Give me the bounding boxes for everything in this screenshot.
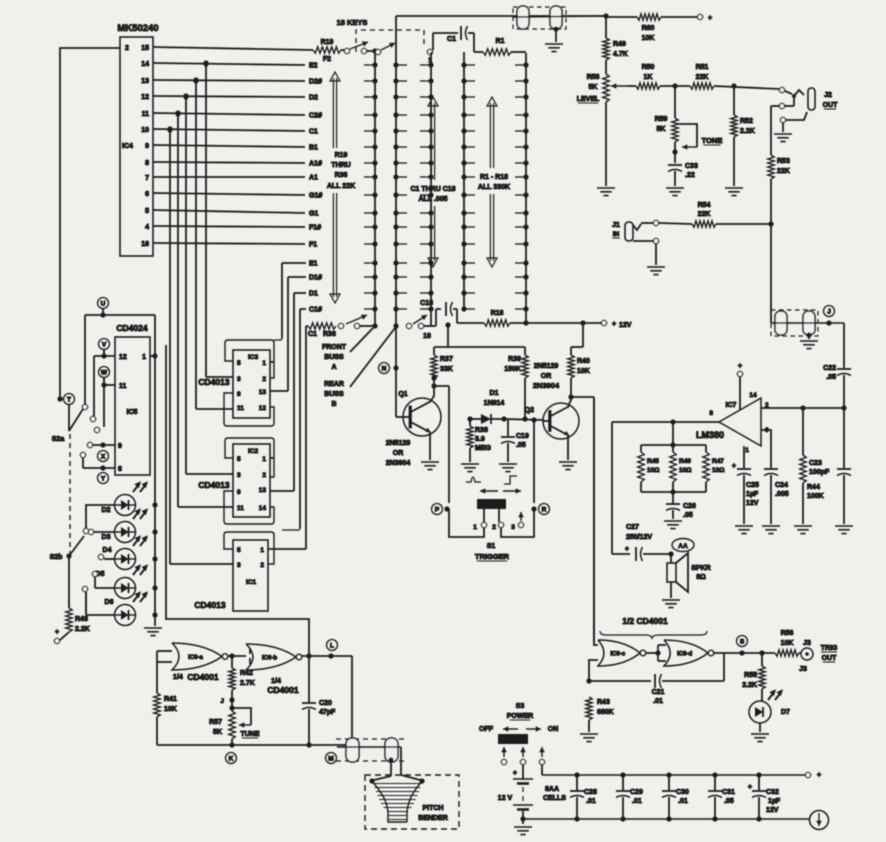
svg-text:10Ω: 10Ω [679,467,691,474]
svg-text:S2b: S2b [50,554,63,561]
svg-text:D2: D2 [309,95,318,102]
svg-text:1: 1 [260,547,264,554]
svg-text:1µF: 1µF [768,798,781,805]
svg-text:12 V: 12 V [498,795,513,802]
svg-text:10Ω: 10Ω [647,467,659,474]
svg-text:33K: 33K [440,366,453,373]
svg-text:R43: R43 [597,699,610,706]
svg-text:C33: C33 [685,163,698,170]
svg-text:14: 14 [141,61,149,68]
svg-text:R55: R55 [744,672,757,679]
svg-text:4: 4 [145,224,149,231]
svg-text:D6: D6 [105,599,114,606]
svg-text:AA: AA [678,543,688,550]
svg-text:TRIG: TRIG [821,645,838,652]
svg-text:D7: D7 [781,709,790,716]
svg-text:C27: C27 [626,524,639,531]
svg-text:ALL 22K: ALL 22K [327,183,355,190]
svg-text:TONE: TONE [702,136,723,145]
svg-text:13: 13 [259,487,267,494]
svg-text:V: V [102,341,107,348]
svg-text:R47: R47 [712,458,724,465]
svg-text:B: B [331,401,336,408]
svg-text:R51: R51 [696,64,709,71]
svg-text:D2#: D2# [309,79,322,86]
svg-text:S3: S3 [516,703,525,710]
svg-text:D3: D3 [102,534,111,541]
svg-text:+: + [612,321,616,328]
svg-text:C25: C25 [746,482,759,489]
svg-text:680K: 680K [597,709,614,716]
svg-text:18: 18 [423,333,431,340]
svg-text:1/4: 1/4 [173,674,183,681]
svg-text:1: 1 [142,354,146,361]
svg-text:LEVEL: LEVEL [577,96,600,103]
svg-text:5: 5 [237,547,241,554]
svg-text:8AA: 8AA [545,786,559,793]
svg-text:R40: R40 [577,358,590,365]
svg-text:22K: 22K [696,74,709,81]
svg-text:2N3904: 2N3904 [386,460,411,467]
svg-text:1µF: 1µF [746,491,759,498]
svg-text:8: 8 [145,160,149,167]
svg-text:R57: R57 [209,719,222,726]
svg-text:L: L [330,642,334,649]
svg-text:250/12V: 250/12V [626,534,652,541]
svg-text:100K: 100K [807,493,824,500]
svg-text:IC7: IC7 [726,402,737,409]
svg-text:CD4024: CD4024 [116,323,147,333]
svg-text:.05: .05 [516,442,526,449]
svg-text:R52: R52 [740,118,753,125]
svg-text:11: 11 [237,505,244,512]
svg-text:W: W [101,369,108,376]
svg-text:REAR: REAR [324,381,344,388]
svg-text:A: A [331,364,336,371]
svg-text:CD4013: CD4013 [194,600,225,610]
svg-text:+: + [817,772,821,779]
svg-text:2.2K: 2.2K [740,128,755,135]
svg-text:THRU: THRU [331,162,350,169]
svg-text:R49: R49 [613,41,626,48]
svg-text:2: 2 [262,376,266,383]
svg-text:R45: R45 [647,458,659,465]
svg-text:C1#: C1# [309,307,322,314]
svg-text:C21: C21 [652,689,665,696]
svg-text:1: 1 [262,456,266,463]
svg-text:C2#: C2# [309,113,322,120]
svg-text:IC6-d: IC6-d [677,651,692,657]
svg-text:TUNE: TUNE [240,731,259,738]
svg-text:3.9: 3.9 [475,436,485,443]
svg-text:R60: R60 [642,25,655,32]
svg-text:S2a: S2a [52,436,65,443]
svg-text:IC4: IC4 [122,143,133,150]
svg-text:A1: A1 [309,175,318,182]
svg-text:C30: C30 [676,789,689,796]
svg-text:CD4001: CD4001 [187,672,218,682]
svg-text:J1: J1 [612,222,620,229]
svg-text:.01: .01 [678,798,688,805]
svg-text:R56: R56 [781,630,794,637]
svg-text:Y: Y [101,475,106,482]
svg-text:+: + [55,629,59,636]
svg-text:7: 7 [145,175,149,182]
svg-text:+: + [732,463,736,470]
svg-text:B1: B1 [309,145,318,152]
svg-text:IC5: IC5 [127,409,138,416]
svg-text:R37: R37 [440,356,453,363]
svg-text:OUT: OUT [823,102,839,109]
svg-text:4.7K: 4.7K [613,51,628,58]
svg-text:C1 THRU C18: C1 THRU C18 [410,186,455,193]
svg-text:12: 12 [141,94,149,101]
svg-text:12V: 12V [766,807,779,814]
svg-text:Q1: Q1 [398,391,407,398]
svg-text:R44: R44 [807,484,820,491]
svg-text:C23: C23 [809,460,822,467]
svg-text:R19: R19 [335,152,348,159]
svg-text:F1: F1 [309,242,317,249]
svg-text:D1#: D1# [309,275,322,282]
svg-text:ON: ON [548,726,559,733]
svg-text:.01: .01 [632,798,642,805]
svg-text:.05: .05 [724,798,734,805]
svg-text:R48: R48 [75,616,88,623]
svg-text:C24: C24 [775,482,788,489]
svg-text:2.2K: 2.2K [75,626,90,633]
svg-text:C18: C18 [420,300,433,307]
svg-text:12V: 12V [746,500,759,507]
svg-text:R41: R41 [164,696,177,703]
svg-text:OR: OR [541,373,552,380]
svg-text:C31: C31 [722,789,735,796]
svg-text:+: + [738,363,742,370]
svg-text:15: 15 [141,45,149,52]
svg-text:1K: 1K [644,74,653,81]
svg-text:5: 5 [145,208,149,215]
svg-text:2.7K: 2.7K [240,680,255,687]
svg-text:J: J [827,308,831,315]
svg-text:J2: J2 [824,92,832,99]
svg-text:F2: F2 [323,56,331,63]
svg-text:.01: .01 [586,798,596,805]
svg-text:OFF: OFF [479,726,494,733]
svg-text:OR: OR [393,450,404,457]
svg-text:M: M [328,755,333,762]
svg-text:5: 5 [237,456,241,463]
svg-text:10K: 10K [164,706,177,713]
svg-text:3: 3 [237,472,241,479]
svg-text:22K: 22K [698,211,711,218]
svg-text:2: 2 [125,45,129,52]
svg-text:P: P [435,506,440,513]
svg-text:LM380: LM380 [696,430,724,440]
svg-text:D1: D1 [490,390,499,397]
svg-text:F1#: F1# [309,225,321,232]
svg-text:S: S [740,638,745,645]
svg-text:2.2K: 2.2K [742,682,757,689]
svg-text:R36: R36 [323,331,336,338]
svg-text:8: 8 [709,410,713,417]
svg-text:CELLS: CELLS [543,795,566,802]
svg-text:IC6-a: IC6-a [188,655,203,661]
svg-text:5K: 5K [213,729,222,736]
svg-text:12V: 12V [619,322,632,329]
svg-text:N: N [382,365,387,372]
svg-text:1/4: 1/4 [271,678,281,685]
svg-text:5K: 5K [589,84,598,91]
svg-text:C22: C22 [823,365,836,372]
svg-text:E2: E2 [309,63,318,70]
svg-text:9: 9 [237,391,241,398]
svg-text:BUSS: BUSS [324,354,344,361]
svg-text:J: J [220,698,224,705]
svg-text:2N5129: 2N5129 [386,440,411,447]
svg-text:R: R [542,506,547,513]
svg-text:12: 12 [119,354,127,361]
svg-text:6: 6 [145,191,149,198]
svg-text:22K: 22K [777,168,790,175]
svg-text:2: 2 [492,524,496,531]
svg-text:5: 5 [237,360,241,367]
svg-text:U: U [101,300,106,307]
svg-text:Q2: Q2 [525,407,534,414]
svg-text:R36: R36 [335,172,348,179]
svg-text:X: X [101,453,106,460]
svg-text:C28: C28 [584,789,597,796]
svg-text:.05: .05 [826,374,836,381]
svg-text:S1: S1 [487,543,496,550]
svg-text:T: T [67,396,71,403]
svg-text:2: 2 [260,562,264,569]
svg-text:CD4013: CD4013 [198,480,229,490]
svg-text:47pF: 47pF [319,709,336,716]
svg-text:SPKR: SPKR [691,565,710,572]
svg-text:14: 14 [749,392,757,399]
svg-text:BENDER: BENDER [418,815,448,822]
svg-text:13: 13 [259,389,267,396]
svg-text:D1: D1 [309,291,318,298]
svg-text:1: 1 [262,360,266,367]
svg-text:+: + [708,15,712,22]
svg-text:R59: R59 [655,116,668,123]
svg-text:.05: .05 [683,512,693,519]
svg-text:14: 14 [259,505,267,512]
svg-text:3: 3 [511,524,515,531]
svg-text:11: 11 [119,383,127,390]
svg-text:OUT: OUT [822,655,838,662]
svg-text:J3: J3 [803,640,811,647]
svg-text:1: 1 [745,447,749,454]
svg-text:C29: C29 [630,789,643,796]
svg-text:.01: .01 [653,698,663,705]
svg-text:C1: C1 [447,36,456,43]
svg-text:2N5129: 2N5129 [534,363,559,370]
svg-text:2: 2 [262,472,266,479]
svg-text:10K: 10K [781,640,794,647]
svg-text:R38: R38 [475,427,488,434]
svg-text:R1 - R18: R1 - R18 [480,174,508,181]
svg-text:R18: R18 [491,310,504,317]
svg-text:18 KEYS: 18 KEYS [337,18,368,27]
svg-text:TRIGGER: TRIGGER [475,552,510,561]
svg-text:C32: C32 [766,789,779,796]
svg-text:C19: C19 [516,433,529,440]
svg-text:+: + [625,546,629,553]
svg-text:R54: R54 [698,202,711,209]
svg-text:3: 3 [237,376,241,383]
svg-text:+: + [748,784,752,791]
svg-text:IC2: IC2 [248,448,259,455]
svg-text:J3: J3 [799,666,807,673]
svg-text:E1: E1 [309,261,318,268]
svg-text:6: 6 [118,466,122,473]
svg-text:+: + [513,770,517,777]
svg-text:3: 3 [237,562,241,569]
svg-text:R50: R50 [642,64,655,71]
svg-text:2N3904: 2N3904 [533,381,560,390]
svg-text:D2: D2 [102,507,111,514]
svg-text:1/2 CD4001: 1/2 CD4001 [622,616,668,626]
svg-text:G1#: G1# [309,193,322,200]
svg-text:C1: C1 [308,331,317,338]
svg-text:CD4001: CD4001 [267,685,298,695]
svg-text:FRONT: FRONT [322,344,347,351]
svg-text:IC3: IC3 [248,354,259,361]
svg-text:13: 13 [141,78,149,85]
svg-text:.22: .22 [685,172,695,179]
svg-text:R42: R42 [240,670,253,677]
svg-text:12: 12 [259,405,267,412]
svg-text:PITCH: PITCH [423,805,444,812]
svg-text:16: 16 [141,241,149,248]
svg-text:1N914: 1N914 [484,400,505,407]
svg-text:ALL 330K: ALL 330K [478,184,510,191]
svg-text:D4: D4 [103,547,112,554]
svg-text:CD4013: CD4013 [198,377,229,387]
svg-text:POWER: POWER [507,713,533,720]
svg-text:.005: .005 [775,491,789,498]
svg-text:ALL .005: ALL .005 [418,196,447,203]
svg-text:MK50240: MK50240 [117,23,158,34]
svg-text:11: 11 [237,405,244,412]
svg-text:10K: 10K [642,35,655,42]
svg-text:R53: R53 [777,158,790,165]
svg-text:IC6-b: IC6-b [262,655,277,661]
svg-text:R58: R58 [587,74,600,81]
svg-text:IN: IN [613,231,620,238]
svg-text:11: 11 [142,111,150,118]
svg-text:BUSS: BUSS [324,391,344,398]
svg-text:IC6-c: IC6-c [610,651,625,657]
svg-text:C20: C20 [319,700,332,707]
svg-text:R46: R46 [679,458,691,465]
svg-text:9: 9 [237,489,241,496]
svg-text:10K: 10K [577,368,590,375]
svg-text:G1: G1 [309,211,318,218]
svg-text:C1: C1 [309,129,318,136]
svg-text:MEG: MEG [475,445,492,452]
svg-text:9: 9 [145,143,149,150]
svg-text:A1#: A1# [309,161,322,168]
svg-text:R39: R39 [508,356,521,363]
svg-text:150K: 150K [504,366,521,373]
svg-text:IC1: IC1 [246,579,257,586]
svg-text:8Ω: 8Ω [696,574,706,581]
svg-text:10: 10 [141,127,149,134]
svg-text:100pF: 100pF [809,469,830,476]
svg-text:C26: C26 [683,503,696,510]
svg-text:1: 1 [473,524,477,531]
svg-text:5K: 5K [657,126,666,133]
svg-text:9: 9 [118,443,122,450]
svg-text:R1: R1 [496,38,505,45]
svg-text:10Ω: 10Ω [712,467,724,474]
svg-text:K: K [229,755,234,762]
